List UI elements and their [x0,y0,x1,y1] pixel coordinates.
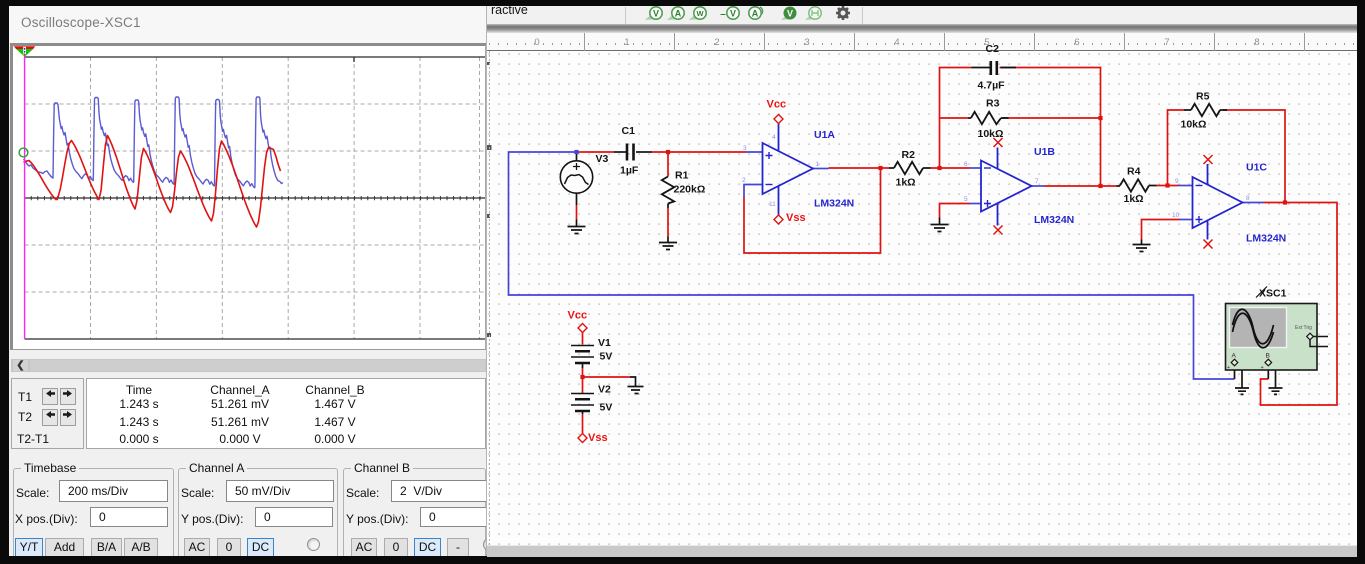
svg-text:+: + [1261,365,1264,371]
svg-text:4: 4 [772,134,776,141]
svg-text:V3: V3 [596,153,609,165]
svg-text:220kΩ: 220kΩ [674,184,706,196]
svg-text:R4: R4 [1127,166,1141,178]
svg-text:–: – [720,9,726,20]
svg-text:8: 8 [1246,195,1250,202]
svg-text:5: 5 [964,196,968,203]
svg-text:+: + [1315,335,1318,341]
svg-text:U1C: U1C [1246,162,1267,174]
svg-text:A: A [675,9,682,19]
svg-text:LM324N: LM324N [1246,233,1286,245]
svg-text:1kΩ: 1kΩ [896,177,916,189]
svg-text:10kΩ: 10kΩ [978,128,1004,140]
svg-text:U1B: U1B [1034,146,1055,158]
svg-text:R5: R5 [1196,91,1210,103]
svg-text:+: + [1227,365,1230,371]
svg-text:7: 7 [1035,178,1039,185]
svg-text:2: 2 [742,177,746,184]
svg-text:10kΩ: 10kΩ [1181,119,1207,131]
svg-text:C2: C2 [986,43,1000,55]
svg-text:C1: C1 [622,125,636,137]
svg-text:Vcc: Vcc [568,310,588,322]
svg-text:3: 3 [743,145,747,152]
svg-text:5V: 5V [600,402,613,414]
svg-text:V: V [653,9,659,19]
svg-text:LM324N: LM324N [1034,214,1074,226]
svg-text:V: V [730,9,736,19]
svg-text:1: 1 [816,161,820,168]
svg-text:Vss: Vss [588,432,608,444]
svg-text:V: V [787,9,793,19]
svg-text:1kΩ: 1kΩ [1124,193,1144,205]
svg-text:Vss: Vss [786,212,806,224]
svg-text:A: A [1232,353,1237,360]
svg-text:XSC1: XSC1 [1259,288,1287,300]
svg-text:5V: 5V [600,351,613,363]
svg-text:R2: R2 [902,149,916,161]
svg-text:R3: R3 [986,98,1000,110]
svg-text:Vcc: Vcc [767,99,787,111]
svg-text:11: 11 [769,201,776,208]
svg-text:V1: V1 [598,337,611,349]
svg-text:B: B [1266,353,1270,360]
svg-text:LM324N: LM324N [814,198,854,210]
svg-text:1µF: 1µF [620,165,639,177]
svg-text:10: 10 [1172,212,1180,219]
svg-text:Ext Trig: Ext Trig [1295,325,1312,331]
svg-text:R1: R1 [675,170,689,182]
svg-text:A: A [752,9,759,19]
svg-text:W: W [696,9,704,18]
svg-text:U1A: U1A [814,129,835,141]
svg-text:4.7µF: 4.7µF [978,80,1006,92]
svg-text:V2: V2 [598,384,611,396]
svg-text:6: 6 [964,161,968,168]
svg-text:9: 9 [1175,178,1179,185]
